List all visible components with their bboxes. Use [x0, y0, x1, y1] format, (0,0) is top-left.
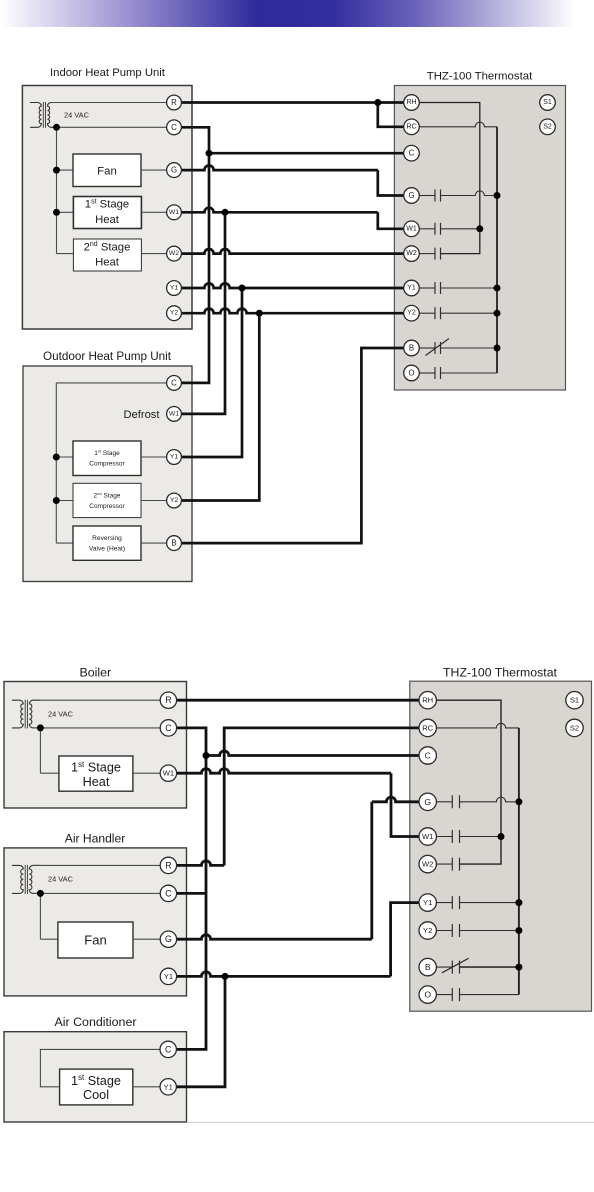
wire — [133, 772, 161, 774]
wire — [133, 1086, 161, 1088]
svg-text:Air Conditioner: Air Conditioner — [55, 1015, 137, 1029]
terminal W1 thermostat bottom — [419, 828, 436, 845]
wire W1 drop — [181, 212, 225, 414]
svg-text:Y1: Y1 — [164, 972, 173, 981]
junction — [515, 964, 522, 971]
svg-text:G: G — [165, 934, 172, 944]
junction — [498, 833, 505, 840]
svg-text:Compressor: Compressor — [89, 461, 125, 468]
terminal Y2 thermostat — [404, 305, 420, 321]
terminal W1 indoor — [167, 205, 182, 220]
terminal B thermostat bottom — [419, 958, 436, 975]
svg-text:G: G — [408, 191, 414, 200]
junction — [476, 225, 483, 232]
wire — [39, 893, 41, 939]
cool stage box — [60, 1069, 133, 1105]
wire AH R to RC — [176, 861, 224, 866]
terminal Y2 outdoor — [167, 493, 182, 508]
terminal G thermostat bottom — [419, 793, 436, 810]
wire — [56, 456, 73, 458]
svg-text:Y2: Y2 — [170, 310, 179, 317]
reversing valve box — [73, 526, 141, 560]
wire — [51, 102, 167, 104]
wire RC bus bottom — [518, 728, 520, 995]
fan box — [73, 154, 141, 187]
svg-text:C: C — [165, 723, 172, 733]
wire — [141, 253, 167, 255]
terminal G thermostat — [404, 188, 420, 204]
svg-text:Y1: Y1 — [407, 285, 416, 292]
contact W1 — [419, 228, 435, 230]
contact O — [419, 372, 435, 374]
svg-text:Y1: Y1 — [423, 898, 432, 907]
terminal W1 boiler — [160, 765, 176, 781]
terminal C boiler — [160, 720, 176, 736]
wire — [40, 938, 58, 940]
svg-text:W2: W2 — [406, 250, 417, 257]
junction — [222, 209, 229, 216]
svg-text:Outdoor Heat Pump Unit: Outdoor Heat Pump Unit — [43, 350, 172, 363]
wire — [40, 772, 59, 774]
contact O bottom — [436, 994, 452, 996]
junction — [239, 285, 246, 292]
svg-text:24 VAC: 24 VAC — [48, 875, 74, 884]
svg-text:C: C — [425, 751, 431, 761]
wire — [40, 1049, 160, 1086]
terminal C thermostat — [404, 145, 420, 161]
junction — [494, 345, 501, 352]
heat stage 2 box — [73, 239, 141, 271]
junction — [53, 209, 60, 216]
wire R to RH — [181, 101, 404, 104]
junction — [515, 899, 522, 906]
svg-text:RC: RC — [422, 723, 433, 732]
terminal C outdoor — [167, 376, 182, 391]
svg-text:S2: S2 — [570, 723, 579, 732]
wire — [33, 699, 161, 701]
junction — [53, 167, 60, 174]
terminal W1 thermostat — [404, 221, 420, 237]
faint rule line — [187, 1121, 594, 1123]
wire W1 — [181, 208, 378, 213]
terminal RH thermostat bottom — [419, 692, 436, 709]
wire O internal — [441, 372, 498, 374]
svg-text:W1: W1 — [169, 209, 179, 216]
wire — [56, 382, 167, 384]
terminal B outdoor — [167, 536, 182, 551]
thermostat box — [394, 86, 565, 391]
wire Y2 drop — [181, 313, 259, 500]
svg-text:Y2: Y2 — [170, 497, 179, 504]
compressor stage2 box — [73, 483, 141, 517]
svg-text:S1: S1 — [570, 696, 579, 705]
wire RH internal bottom — [436, 700, 501, 864]
svg-text:Defrost: Defrost — [123, 409, 160, 421]
svg-text:C: C — [171, 378, 177, 387]
terminal Y1 outdoor — [167, 450, 182, 465]
contact W2 bottom — [436, 863, 452, 865]
wire B — [182, 348, 404, 543]
terminal RH thermostat — [404, 95, 420, 111]
wire AH G — [176, 935, 372, 940]
wire RC internal bottom — [436, 723, 519, 728]
junction — [53, 497, 60, 504]
heat stage 1 box — [73, 197, 141, 229]
wire — [141, 542, 167, 544]
svg-text:Heat: Heat — [83, 775, 110, 789]
svg-text:B: B — [425, 962, 431, 972]
wire — [141, 211, 167, 213]
terminal Y1 air conditioner — [160, 1079, 176, 1095]
contact Y1 — [419, 287, 435, 289]
svg-text:RH: RH — [422, 696, 433, 705]
junction — [256, 310, 263, 317]
wire W2 — [181, 249, 404, 254]
terminal S1 — [540, 95, 556, 111]
svg-text:G: G — [424, 797, 431, 807]
junction — [222, 973, 229, 980]
contact G — [419, 195, 435, 197]
terminal S2 bottom — [566, 719, 583, 736]
terminal C air handler — [160, 885, 176, 901]
contact B normally closed — [419, 347, 435, 349]
terminal RC thermostat bottom — [419, 719, 436, 736]
wire Y1 — [181, 283, 404, 288]
wire — [33, 864, 161, 866]
terminal W2 thermostat bottom — [419, 855, 436, 872]
terminal W2 indoor — [167, 246, 182, 261]
junction — [53, 454, 60, 461]
wire — [141, 456, 167, 458]
terminal B thermostat — [404, 340, 420, 356]
svg-text:S2: S2 — [543, 123, 552, 130]
junction — [494, 285, 501, 292]
wire — [141, 500, 167, 502]
compressor stage1 box — [73, 441, 141, 476]
contact B normally closed bottom — [436, 966, 452, 968]
svg-text:W1: W1 — [163, 769, 174, 778]
terminal W1 outdoor — [167, 407, 182, 422]
junction — [37, 890, 44, 897]
svg-text:THZ-100 Thermostat: THZ-100 Thermostat — [443, 665, 557, 679]
contact Y1 bottom — [436, 902, 452, 904]
svg-text:Y1: Y1 — [164, 1082, 173, 1091]
svg-text:THZ-100 Thermostat: THZ-100 Thermostat — [427, 70, 533, 82]
svg-text:O: O — [408, 369, 414, 378]
svg-text:24 VAC: 24 VAC — [64, 111, 90, 120]
terminal R air handler — [160, 857, 176, 873]
svg-text:O: O — [424, 990, 431, 1000]
contact W2 — [419, 253, 435, 255]
svg-text:Y2: Y2 — [423, 926, 432, 935]
indoor heat pump unit box — [22, 86, 192, 330]
wire — [56, 542, 73, 544]
air handler fan box — [58, 922, 133, 958]
wire Y1 drop — [181, 288, 242, 457]
wire AH Y1 — [176, 972, 391, 977]
wire — [39, 728, 41, 773]
wire — [133, 938, 161, 940]
svg-text:C: C — [165, 1044, 172, 1054]
boiler heat box — [59, 756, 133, 791]
terminal G air handler — [160, 931, 176, 947]
svg-text:Fan: Fan — [84, 933, 106, 948]
contact Y2 bottom — [436, 930, 452, 932]
terminal Y2 thermostat bottom — [419, 922, 436, 939]
outdoor heat pump unit box — [23, 366, 192, 582]
wire — [33, 727, 161, 729]
junction — [494, 310, 501, 317]
terminal O thermostat — [404, 365, 420, 381]
svg-text:B: B — [171, 539, 176, 548]
svg-text:Y1: Y1 — [170, 454, 179, 461]
junction — [206, 150, 213, 157]
svg-text:Heat: Heat — [95, 256, 120, 268]
junction — [515, 798, 522, 805]
wire RH internal — [419, 103, 480, 254]
wire RC bus — [496, 127, 498, 373]
wire — [33, 892, 161, 894]
svg-text:24 VAC: 24 VAC — [48, 710, 74, 719]
svg-text:R: R — [171, 98, 177, 107]
svg-text:G: G — [171, 166, 177, 175]
svg-text:Boiler: Boiler — [79, 666, 111, 680]
wire — [56, 500, 73, 502]
svg-text:W1: W1 — [422, 832, 433, 841]
wire AH C — [176, 892, 206, 895]
terminal RC thermostat — [404, 119, 420, 135]
svg-text:W2: W2 — [169, 250, 179, 257]
wire boiler C down — [161, 728, 206, 1050]
terminal O thermostat bottom — [419, 986, 436, 1003]
terminal C indoor — [167, 120, 182, 135]
boiler box — [4, 682, 187, 809]
svg-text:W2: W2 — [422, 860, 433, 869]
terminal R indoor — [167, 95, 182, 110]
svg-text:S1: S1 — [543, 99, 552, 106]
terminal C air conditioner — [160, 1041, 176, 1057]
svg-text:Heat: Heat — [95, 214, 120, 226]
wire RC internal — [419, 122, 497, 127]
contact W1 bottom — [436, 836, 452, 838]
contact G bottom — [436, 801, 452, 803]
svg-text:B: B — [409, 344, 414, 353]
wire — [57, 211, 74, 213]
terminal Y1 air handler — [160, 968, 176, 984]
terminal W2 thermostat — [404, 246, 420, 262]
terminal Y1 indoor — [167, 281, 182, 296]
svg-text:C: C — [409, 149, 415, 158]
terminal R boiler — [160, 692, 176, 708]
junction — [374, 99, 381, 106]
junction — [515, 927, 522, 934]
svg-text:Compressor: Compressor — [89, 503, 125, 510]
svg-text:W1: W1 — [169, 410, 179, 417]
wire O internal bottom — [460, 994, 519, 996]
svg-text:W1: W1 — [406, 225, 417, 232]
transformer T1 — [30, 102, 41, 127]
junction — [494, 192, 501, 199]
terminal C thermostat bottom — [419, 747, 436, 764]
wire — [57, 253, 74, 255]
wire boiler R to RH — [176, 699, 419, 702]
terminal Y1 thermostat — [404, 280, 420, 296]
wire C branch — [206, 751, 419, 756]
contact Y2 — [419, 312, 435, 314]
svg-text:Reversing: Reversing — [92, 535, 122, 542]
wire Y2 — [181, 309, 404, 314]
svg-text:RC: RC — [406, 123, 416, 130]
wire C branch to thermostat — [209, 152, 404, 155]
junction — [37, 724, 44, 731]
svg-text:Indoor Heat Pump Unit: Indoor Heat Pump Unit — [50, 67, 166, 79]
transformer T2 — [12, 700, 23, 728]
wire — [55, 383, 57, 543]
svg-text:Y2: Y2 — [407, 310, 416, 317]
wire G step — [181, 166, 378, 171]
junction — [203, 752, 210, 759]
wire — [57, 169, 74, 171]
junction — [53, 124, 60, 131]
svg-text:Air Handler: Air Handler — [65, 832, 126, 846]
wire — [51, 126, 167, 128]
air conditioner box — [4, 1032, 187, 1122]
wire — [141, 169, 167, 171]
svg-text:Y1: Y1 — [170, 285, 179, 292]
terminal Y1 thermostat bottom — [419, 894, 436, 911]
svg-text:R: R — [165, 860, 171, 870]
wire C down — [181, 127, 209, 383]
thermostat box bottom — [410, 681, 592, 1011]
wire RH-RC jumper — [378, 103, 404, 127]
svg-text:C: C — [171, 123, 177, 132]
terminal Y2 indoor — [167, 306, 182, 321]
wire boiler W1 — [176, 769, 391, 774]
svg-text:Fan: Fan — [97, 165, 117, 177]
svg-text:Valve (Heat): Valve (Heat) — [89, 546, 125, 553]
wire — [56, 127, 58, 253]
terminal S2 — [540, 119, 556, 135]
svg-text:Cool: Cool — [83, 1088, 109, 1102]
wire AC Y1 up — [176, 976, 225, 1086]
air handler box — [4, 848, 187, 996]
terminal S1 bottom — [566, 692, 583, 709]
svg-text:RH: RH — [406, 99, 416, 106]
transformer T3 — [12, 865, 23, 893]
svg-text:C: C — [165, 888, 172, 898]
svg-text:R: R — [165, 695, 171, 705]
terminal G indoor — [167, 163, 182, 178]
